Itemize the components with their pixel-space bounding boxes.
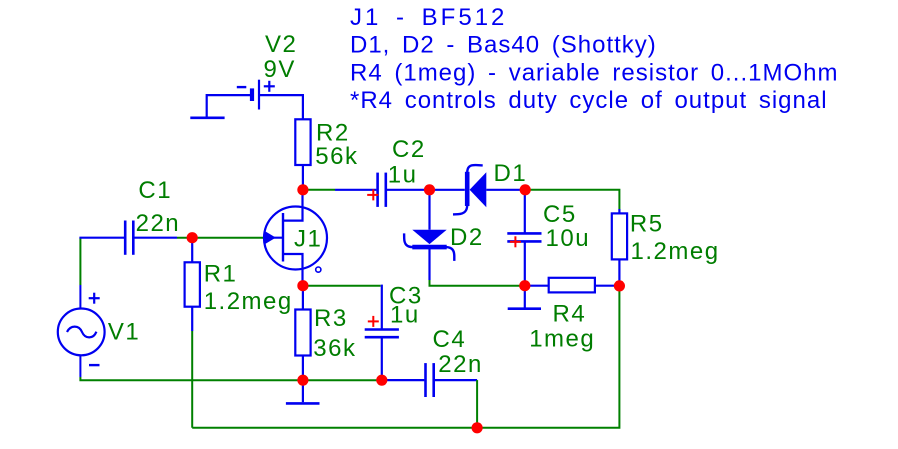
- resistor R1 body: [185, 262, 200, 306]
- capacitor C5 top lead: [524, 190, 526, 234]
- svg-text:*R4 controls duty cycle of out: *R4 controls duty cycle of output signal: [350, 87, 828, 114]
- plus sign of V2: [264, 81, 275, 92]
- plus mark of C3 (red): [368, 316, 379, 327]
- resistor R5 body: [612, 213, 627, 259]
- diode D1 triangle: [470, 172, 487, 207]
- transistor J1 gate line: [265, 237, 284, 239]
- diode D2 schottky cathode bar: [412, 245, 446, 250]
- minus sign of V2: [237, 86, 247, 88]
- wire: source junction to C3: [303, 285, 381, 287]
- wire: ground rail blue lead into C4: [386, 379, 424, 381]
- capacitor C4 plates: [426, 363, 434, 397]
- diode D1 schottky cathode bar: [465, 172, 470, 206]
- resistor R1 top lead: [191, 238, 193, 262]
- wire: drain junction to C2: [303, 189, 335, 191]
- svg-text:C2: C2: [392, 136, 426, 163]
- svg-text:V1: V1: [108, 319, 140, 346]
- diode D1 left lead: [430, 189, 465, 191]
- svg-text:C4: C4: [433, 326, 467, 353]
- diode D1 schottky top hook: [467, 165, 483, 173]
- svg-text:1.2meg: 1.2meg: [204, 288, 293, 315]
- capacitor C3 bottom lead: [381, 338, 383, 380]
- capacitor C1 left lead: [79, 237, 124, 239]
- svg-text:1meg: 1meg: [529, 325, 595, 352]
- sine wave inside V1: [67, 327, 96, 338]
- resistor R4 right lead: [595, 285, 620, 287]
- svg-text:D2: D2: [450, 224, 484, 251]
- svg-text:J1 - BF512: J1 - BF512: [350, 4, 507, 31]
- wire: bottom output rail horizontal: [192, 286, 619, 428]
- transistor J1 source path: [283, 254, 303, 286]
- svg-text:R4: R4: [553, 300, 587, 327]
- svg-text:R4 (1meg) - variable resistor: R4 (1meg) - variable resistor 0...1MOhm: [350, 59, 838, 86]
- svg-text:R1: R1: [204, 260, 238, 287]
- plus sign of V1: [89, 293, 100, 304]
- resistor R4 body: [549, 278, 595, 293]
- capacitor C2 left lead: [335, 189, 376, 191]
- capacitor C2 plates: [378, 173, 386, 207]
- svg-text:C5: C5: [543, 201, 577, 228]
- resistor R5 top lead: [618, 209, 620, 214]
- voltage source V1 circle: [58, 309, 105, 356]
- svg-text:R3: R3: [314, 305, 348, 332]
- resistor R3 bottom lead: [302, 356, 304, 381]
- ground stub under R3 junction: [302, 380, 304, 402]
- wire: R1 bottom down to output rail: [191, 331, 193, 428]
- svg-text:R5: R5: [630, 210, 664, 237]
- capacitor C5 bottom lead: [524, 242, 526, 285]
- transistor J1 circle: [264, 207, 327, 270]
- junction: C2/D1/D2: [424, 184, 435, 195]
- junction: C1/R1/gate: [187, 232, 198, 243]
- resistor R4 left lead: [525, 285, 549, 287]
- junction: C3 bottom: [376, 375, 387, 386]
- svg-text:22n: 22n: [438, 351, 483, 378]
- battery V2 left lead: [207, 95, 250, 117]
- svg-text:36k: 36k: [313, 335, 356, 362]
- svg-text:1u: 1u: [390, 302, 420, 329]
- junction: C4/output rail: [472, 422, 483, 433]
- junction: D1/C5/R5 wire: [520, 184, 531, 195]
- svg-text:9V: 9V: [264, 56, 296, 83]
- diode D1 schottky bottom hook: [453, 205, 467, 215]
- wire: V1 bottom lead (blue): [79, 355, 81, 377]
- capacitor C5 plates: [507, 233, 541, 241]
- resistor R2 bottom lead: [302, 165, 304, 190]
- svg-text:1.2meg: 1.2meg: [631, 238, 720, 265]
- svg-text:J1: J1: [294, 225, 322, 252]
- diode D2 top lead: [428, 190, 430, 230]
- wire: D2 bottom to C5 junction: [430, 280, 525, 286]
- svg-text:D1, D2 - Bas40 (Shottky): D1, D2 - Bas40 (Shottky): [350, 32, 657, 59]
- junction: C5/R4/ground: [519, 280, 530, 291]
- capacitor C3 top lead: [381, 285, 383, 330]
- minus sign of V1: [89, 364, 100, 366]
- svg-text:D1: D1: [494, 160, 528, 187]
- diode D2 schottky left hook: [404, 233, 413, 247]
- resistor R1 bottom lead: [191, 307, 193, 331]
- capacitor C2 right lead: [387, 189, 430, 191]
- resistor R2 body: [295, 119, 310, 165]
- svg-text:56k: 56k: [315, 143, 358, 170]
- capacitor C1 plates: [125, 221, 133, 255]
- resistor R3 body: [295, 310, 310, 356]
- transistor J1 gate arrow: [264, 231, 276, 245]
- diode D2 schottky right hook: [446, 247, 455, 261]
- wire: C4 right down to output rail: [476, 380, 478, 428]
- junction: R4/R5/output rail: [614, 280, 625, 291]
- ground bar under R3 junction: [286, 402, 320, 405]
- diode D2 bottom lead: [428, 249, 430, 280]
- svg-text:22n: 22n: [136, 210, 181, 237]
- diode D1 right lead: [486, 189, 525, 191]
- transistor J1 pin marker dot: [316, 267, 321, 272]
- ground bar under C5 junction: [508, 307, 541, 310]
- svg-text:V2: V2: [265, 31, 297, 58]
- transistor J1 drain path: [283, 190, 303, 221]
- svg-text:1u: 1u: [388, 162, 418, 189]
- wire: V1 bottom to ground rail: [80, 377, 386, 380]
- junction: R2/C2/drain: [297, 184, 308, 195]
- resistor R3 top lead: [302, 286, 304, 309]
- wire: V1 top lead (blue): [79, 285, 81, 309]
- diode D2 triangle: [412, 230, 446, 244]
- junction: R3 bottom/ground rail: [297, 375, 308, 386]
- capacitor C1 right lead: [134, 237, 177, 239]
- ground stub under C5 junction: [524, 286, 526, 308]
- plus mark of C5 (red): [510, 236, 521, 247]
- junction: source/R3/C3: [297, 280, 308, 291]
- svg-text:10u: 10u: [546, 225, 591, 252]
- battery V2 positive plate (long thin): [258, 80, 260, 110]
- svg-text:C1: C1: [138, 177, 172, 204]
- capacitor C4 right lead: [435, 379, 477, 381]
- wire: C1 to gate junction to J1 gate: [177, 237, 265, 239]
- battery V2 negative plate (short thick): [250, 88, 254, 101]
- ground bar (battery V2): [190, 117, 224, 120]
- wire: V1 top vertical: [79, 238, 81, 285]
- plus mark of C2 (red): [367, 189, 378, 200]
- transistor J1 channel bar: [282, 213, 284, 262]
- resistor R5 bottom lead: [618, 260, 620, 287]
- capacitor C3 plates: [365, 330, 399, 338]
- wire: D1 junction to R5 corner: [525, 190, 619, 209]
- battery V2 right lead: [260, 95, 303, 119]
